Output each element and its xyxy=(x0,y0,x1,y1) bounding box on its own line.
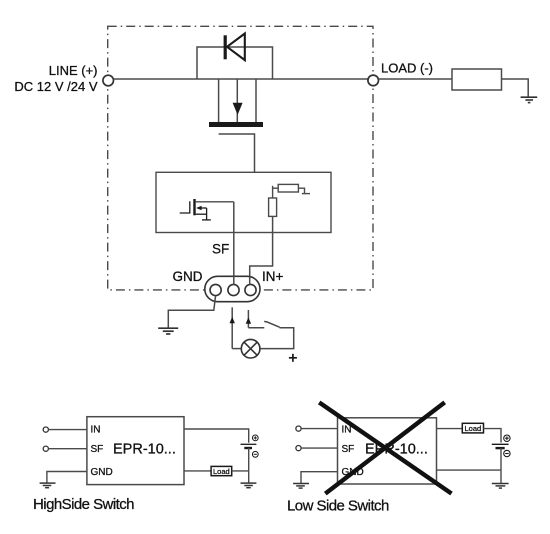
ground symbol (battery, HighSide) xyxy=(241,483,257,488)
lamp L1 xyxy=(241,339,260,358)
transistor Q1 channel bar xyxy=(209,122,263,127)
IC U1 box xyxy=(87,417,184,485)
wire IN (right) xyxy=(301,428,337,430)
ground symbol (left, HighSide) xyxy=(40,483,56,488)
svg-text:DC 12 V /24 V: DC 12 V /24 V xyxy=(14,79,97,94)
wire load resistor to ground xyxy=(502,79,529,97)
wire SF from Q2 drain down to connector xyxy=(233,202,235,285)
terminal LINE(+) xyxy=(103,75,114,86)
transistor Q1 gate electrode xyxy=(219,134,255,172)
transistor Q2 drain wire xyxy=(196,201,234,203)
ground symbol (GND pin) xyxy=(158,328,178,334)
terminal LOAD(-) xyxy=(368,75,379,86)
svg-text:Low Side Switch: Low Side Switch xyxy=(287,498,389,515)
svg-text:SF: SF xyxy=(212,242,229,257)
resistor Load box xyxy=(211,466,232,476)
transistor Q2 small mosfet: channel bar xyxy=(193,199,195,215)
wire box top right to Load (right) xyxy=(437,428,463,430)
connector (3-pole stadium) xyxy=(205,276,260,301)
terminal IN xyxy=(43,427,48,432)
wire box top right to battery xyxy=(184,429,249,443)
resistor RL load xyxy=(452,69,502,90)
wire box lower right (right) xyxy=(437,469,502,471)
wire IN+ from R2 down to connector xyxy=(250,216,273,284)
connector pin SF xyxy=(228,284,239,295)
battery B2 xyxy=(492,444,509,448)
resistor R1 (horizontal) xyxy=(273,184,310,198)
resistor Load box (right) xyxy=(462,423,483,433)
wire LOAD terminal to load resistor xyxy=(379,78,453,80)
wire IN xyxy=(48,429,87,431)
label + (battery positive) xyxy=(289,354,297,362)
resistor R2 (vertical) xyxy=(269,198,277,216)
wire SF xyxy=(48,448,87,450)
wire GND to ground xyxy=(47,472,87,483)
IC U2 box xyxy=(338,418,437,484)
battery - terminal mark (right) xyxy=(504,450,510,456)
terminal SF xyxy=(43,446,48,451)
wire battery down + lower wire (right) xyxy=(500,448,502,483)
svg-text:IN+: IN+ xyxy=(262,269,284,284)
svg-text:SF: SF xyxy=(91,444,104,455)
wire diode branch left xyxy=(197,47,273,79)
diode D1 (body diode, cathode left) xyxy=(224,34,245,61)
transistor Q1 power MOSFET: source/drain drops xyxy=(218,79,220,122)
transistor Q1 body arrow xyxy=(233,79,243,122)
svg-text:Load: Load xyxy=(213,467,230,476)
control circuit inner box xyxy=(156,172,331,232)
terminal SF (right) xyxy=(296,446,301,451)
wire GND pin to ground xyxy=(168,296,215,328)
wire battery to load level xyxy=(248,448,250,483)
connector pin GND xyxy=(210,284,221,295)
svg-text:SF: SF xyxy=(342,444,355,455)
cross-out X xyxy=(319,402,451,493)
svg-text:EPR-10...: EPR-10... xyxy=(113,442,176,458)
svg-text:GND: GND xyxy=(91,467,113,478)
wire plug contact SF (with arrow) xyxy=(230,307,235,348)
svg-text:HighSide Switch: HighSide Switch xyxy=(33,496,134,513)
ground symbol (battery, LowSide) xyxy=(492,484,509,489)
battery + terminal mark (right) xyxy=(504,435,510,441)
wire main rail xyxy=(114,78,368,80)
svg-text:Load: Load xyxy=(465,424,482,433)
battery B1 xyxy=(241,444,257,448)
switch S1 xyxy=(260,321,294,348)
terminal IN (right) xyxy=(296,426,301,431)
ground symbol (left, LowSide) xyxy=(293,484,309,489)
transistor Q2 gate xyxy=(180,201,190,213)
wire plug contact IN+ (with arrow) xyxy=(246,310,265,328)
wire SF stub inside connector xyxy=(233,276,235,284)
svg-text:GND: GND xyxy=(173,269,203,284)
wire lamp left lead xyxy=(232,348,241,350)
battery + terminal mark xyxy=(252,435,258,441)
connector pin IN+ xyxy=(245,284,256,295)
transistor Q2 source arrow xyxy=(196,206,211,220)
svg-text:IN: IN xyxy=(91,425,101,436)
ground symbol (load) xyxy=(521,97,538,102)
dashed enclosure box (relay outline) xyxy=(108,26,373,290)
svg-text:LOAD (-): LOAD (-) xyxy=(381,60,433,75)
wire box right to Load xyxy=(184,470,211,472)
svg-text:LINE (+): LINE (+) xyxy=(49,63,98,78)
wire Load to battery (right) xyxy=(484,429,502,443)
wire GND to ground (right) xyxy=(301,472,338,484)
wire IN+ stub inside connector xyxy=(249,276,251,284)
battery - terminal mark xyxy=(252,451,258,457)
wire SF (right) xyxy=(301,447,337,449)
wire Load to battery branch xyxy=(232,470,249,472)
